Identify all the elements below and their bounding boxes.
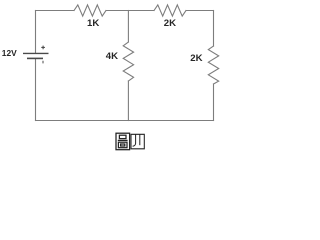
wire left lower — [35, 59, 37, 121]
wire right upper — [213, 11, 215, 47]
resistor R1 1K — [74, 5, 106, 16]
resistor R3 4K — [123, 42, 133, 81]
battery long plate (+) — [23, 52, 49, 54]
battery plus sign — [41, 46, 45, 50]
resistor R2 2K — [154, 5, 186, 16]
wire middle upper — [127, 11, 129, 43]
caption glyph 圖 (Figure) — [116, 133, 130, 150]
wire right lower — [213, 84, 215, 121]
svg-text:12V: 12V — [2, 48, 17, 58]
svg-text:4K: 4K — [106, 51, 118, 62]
caption glyph 四 (four) — [131, 134, 144, 149]
wire left upper — [35, 11, 37, 54]
svg-text:2K: 2K — [190, 53, 202, 64]
svg-text:1K: 1K — [87, 18, 99, 29]
wire middle lower — [127, 81, 129, 121]
wire bottom — [36, 120, 214, 122]
wire top-left segment — [36, 10, 75, 12]
wire top-right segment — [186, 10, 214, 12]
svg-text:2K: 2K — [164, 18, 176, 29]
battery minus mark — [42, 61, 44, 64]
resistor R4 2K — [208, 46, 218, 84]
wire top-middle segment — [106, 10, 154, 12]
battery V1 plates — [23, 46, 49, 64]
battery short plate (-) — [27, 57, 43, 59]
